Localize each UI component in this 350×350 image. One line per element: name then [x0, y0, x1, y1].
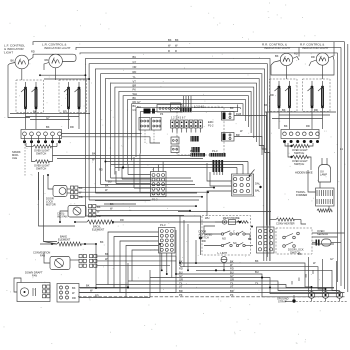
svg-text:RD: RD: [270, 93, 274, 97]
wire right lamp tie: [271, 60, 334, 75]
svg-text:OR: OR: [230, 277, 234, 281]
label convection fan: [33, 251, 50, 258]
svg-text:WH: WH: [133, 92, 137, 96]
svg-text:BK: BK: [248, 237, 252, 241]
label R.F. control and indicator light: [300, 43, 329, 51]
wire bottom bus 1 (BK): [179, 259, 312, 287]
wire cooling fan left lead: [60, 211, 68, 222]
transformer T1 box: [316, 188, 335, 206]
junction dots scattered: [47, 74, 326, 290]
wire terminal riser L1: [309, 257, 312, 292]
svg-text:BK: BK: [72, 286, 76, 290]
label door lock switch: [288, 248, 304, 255]
connector P23 dark: [144, 109, 156, 114]
svg-text:BAL: BAL: [255, 189, 260, 193]
wire mesh elbow right group: [85, 178, 201, 216]
relay board switch lever: [249, 170, 255, 177]
switch assembly S3 (R.R. infinite switch): [270, 79, 298, 112]
connector P4 pins open: [283, 132, 320, 136]
thermal limit switch: [221, 257, 227, 272]
wire below right switch boxes: [265, 108, 336, 119]
svg-text:BU: BU: [137, 105, 141, 109]
svg-text:PK: PK: [179, 293, 183, 297]
svg-text:RD: RD: [70, 125, 74, 129]
svg-text:BU: BU: [133, 104, 137, 108]
node meat probe left: [199, 216, 206, 255]
ERC left pin boxes: [171, 137, 179, 153]
wire lamp DS3 leads: [271, 52, 299, 66]
wire bottom bus 5 (GY): [150, 274, 341, 294]
svg-text:OR: OR: [179, 277, 183, 281]
svg-text:RD: RD: [63, 110, 67, 114]
svg-text:BU: BU: [108, 180, 112, 184]
wire mesh horizontal 3: [105, 161, 248, 163]
wire cross tie y79: [44, 78, 89, 80]
svg-text:ERC: ERC: [208, 120, 214, 124]
svg-text:WH: WH: [205, 216, 209, 220]
wire y211 long: [178, 211, 271, 213]
terminal L2: [336, 292, 343, 302]
svg-text:BK: BK: [133, 96, 137, 100]
meat probe jack: [222, 220, 248, 225]
svg-text:SWITCH: SWITCH: [36, 152, 46, 156]
wire right switch drops to connector: [279, 112, 323, 130]
svg-text:GY: GY: [230, 274, 234, 278]
wire mid vertical 5: [175, 256, 177, 292]
svg-text:STRAP: STRAP: [278, 300, 287, 304]
wire mesh horizontal 5: [115, 166, 237, 168]
door lock switch dashed box: [276, 228, 312, 254]
connector P3 body (left): [21, 130, 62, 139]
svg-text:PK: PK: [133, 88, 137, 92]
svg-text:NO: NO: [222, 237, 226, 241]
switch assembly S4 (R.F. infinite switch): [303, 79, 331, 112]
svg-text:BK: BK: [264, 103, 268, 107]
svg-text:ULE: ULE: [12, 156, 17, 160]
svg-text:BK: BK: [97, 205, 101, 209]
resistor oven light 1: [26, 145, 57, 148]
wire meat probe area links: [204, 226, 253, 246]
wire bottom bus 2 (W): [179, 263, 326, 289]
connector small B: [152, 118, 162, 131]
svg-text:BK: BK: [282, 108, 286, 112]
wire fan line 13 (GY): [133, 105, 238, 154]
svg-text:YL: YL: [230, 281, 234, 285]
svg-text:MEAT PROBE: MEAT PROBE: [223, 216, 240, 220]
svg-text:SWITCH: SWITCH: [294, 162, 304, 166]
wire relay K2 out: [234, 137, 262, 156]
label oven light 2: [34, 164, 50, 171]
wire relay board left leads: [207, 163, 232, 216]
svg-text:BR: BR: [230, 289, 234, 293]
wire mid vertical 4: [159, 243, 161, 293]
svg-text:CONV HEATER: CONV HEATER: [276, 222, 295, 226]
wire fan line 5 (YL): [105, 75, 263, 261]
wire door lock rows east: [78, 188, 214, 197]
connector block P1-2: [151, 172, 167, 202]
svg-text:LIGHT: LIGHT: [4, 51, 13, 55]
wire fan line 9 (WH): [123, 92, 248, 168]
wire mesh horizontal 4: [111, 164, 243, 166]
wire bake leads: [44, 242, 97, 246]
svg-text:BK: BK: [11, 59, 15, 63]
wire cross tie y75: [39, 74, 85, 76]
svg-text:BK: BK: [284, 124, 288, 128]
wire feeders P1-2 top: [154, 162, 164, 172]
wire top bus R: [80, 49, 338, 54]
svg-text:INDICATOR LIGHT: INDICATOR LIGHT: [264, 46, 291, 50]
indicator lamp DS2 (L.R.): [49, 54, 63, 68]
svg-text:1 2 3 4 5 6 7: 1 2 3 4 5 6 7: [171, 116, 186, 120]
label bake element: [58, 235, 71, 242]
wire fan line 7 (BR): [115, 83, 254, 174]
wire lamp DS3 up stub: [298, 47, 300, 56]
wire door lock switch outputs: [312, 233, 345, 244]
label oven light 1: [34, 149, 50, 156]
wire dashed drops from small comps: [145, 130, 154, 143]
svg-text:VT: VT: [179, 284, 183, 288]
connector P3 pins filled: [23, 140, 61, 143]
svg-text:GY: GY: [133, 60, 137, 64]
svg-text:HIDDEN BAKE: HIDDEN BAKE: [295, 171, 313, 175]
wire terminal riser L2: [337, 261, 340, 292]
svg-text:BK: BK: [298, 252, 302, 256]
svg-text:YL: YL: [133, 75, 137, 79]
wire lamp DS2 bottom drop: [55, 68, 57, 80]
label relay K1: [236, 112, 241, 116]
svg-text:YL: YL: [255, 281, 259, 285]
label relay K2: [236, 133, 240, 137]
wire bottom bus 3 (RD): [179, 267, 340, 291]
svg-text:FAN: FAN: [40, 254, 45, 258]
svg-text:BK: BK: [100, 240, 104, 244]
connector convection fan A: [79, 255, 86, 268]
resistor oven light 3: [290, 144, 309, 147]
wire lamp DS4 bottom drop: [322, 65, 324, 79]
svg-text:RD: RD: [311, 55, 315, 59]
wire fan line 12 (BU): [133, 104, 241, 157]
svg-text:INDICATOR LIGHT: INDICATOR LIGHT: [44, 46, 71, 50]
wire rail to down draft: [14, 278, 21, 292]
ERC top connector bar: [171, 96, 193, 112]
wire right edge drop 4: [347, 44, 349, 292]
wire lamp DS4 leads: [309, 55, 334, 66]
label hidden bake: [295, 171, 313, 175]
wire right edge drop 3: [337, 53, 339, 282]
svg-text:P4: P4: [160, 112, 164, 116]
switch assembly S2 (L.R. infinite switch): [59, 80, 87, 113]
svg-text:MOTOR: MOTOR: [46, 203, 56, 207]
wire loop over lamps: [33, 54, 76, 61]
wire transformer leads: [308, 170, 329, 210]
coil under transformer: [317, 209, 332, 212]
wire P3 pin drops: [25, 136, 60, 142]
wire right edge drop 1: [344, 42, 346, 289]
wire bus left risers: [176, 216, 196, 274]
svg-text:BR: BR: [179, 289, 183, 293]
label door lock motor: [46, 197, 56, 207]
wire broil leads: [75, 221, 241, 223]
svg-text:RD: RD: [230, 267, 234, 271]
down draft capacitor: [33, 288, 36, 296]
wire center vertical x266: [266, 112, 268, 226]
svg-text:NC: NC: [233, 241, 237, 245]
svg-text:BU: BU: [255, 270, 259, 274]
label spark module: [12, 150, 21, 160]
door lock motor box: [53, 186, 67, 197]
label oven light 4: [292, 159, 308, 166]
wire bottom bus 4 (BU): [176, 270, 345, 297]
wire right edge drop 2: [340, 47, 342, 286]
wire lamp DS1 left lead: [8, 59, 15, 66]
door lock switch sym 2: [283, 242, 296, 247]
svg-text:BU: BU: [133, 55, 137, 59]
svg-text:ING FAN: ING FAN: [57, 215, 68, 219]
svg-text:BK: BK: [255, 259, 259, 263]
resistor broil element: [87, 220, 113, 224]
svg-text:BK: BK: [275, 54, 279, 58]
wire fan line 2 (GY): [89, 60, 267, 257]
svg-text:RD: RD: [45, 58, 49, 62]
wire bottom bus 9 (BR): [79, 289, 345, 293]
ERC bottom bar 1: [191, 153, 206, 157]
wire fan line 8 (PK): [119, 88, 251, 171]
meat probe dashed box: [202, 216, 251, 256]
wire fan line 3 (OR): [95, 65, 269, 261]
terminal L1: [308, 292, 315, 302]
wire mid vertical 2: [127, 263, 129, 289]
wire fan line 1 (BU): [85, 55, 270, 261]
label meat probe: [223, 216, 240, 220]
svg-text:RD: RD: [294, 52, 298, 56]
svg-text:1 2 3 4 5: 1 2 3 4 5: [194, 105, 205, 109]
wire left dashed drops: [25, 144, 39, 200]
terminal N: [322, 292, 329, 302]
wire oven sensor leads: [312, 242, 341, 244]
svg-text:BK: BK: [46, 125, 50, 129]
convection fan motor: [50, 257, 70, 270]
svg-text:BK: BK: [86, 284, 90, 288]
wire top bus BK: [33, 38, 345, 45]
label L.R. control and indicator light: [42, 43, 71, 51]
svg-text:GY: GY: [330, 257, 334, 261]
connector block P1-3: [159, 223, 176, 253]
label oven sensor: [317, 229, 328, 236]
wire top bus W: [76, 44, 341, 50]
wire bottom bus 8 (VT): [80, 284, 334, 288]
connector P4 body (right): [281, 130, 319, 139]
wire center vertical x269: [269, 96, 271, 226]
svg-text:P1-2: P1-2: [208, 124, 214, 128]
wire bottom bus 6 (OR): [128, 277, 338, 290]
label L limit: [218, 251, 228, 255]
wire feeders P1-2 left: [116, 175, 151, 193]
wire feeders P1-3 left: [108, 232, 159, 297]
label door heater: [276, 222, 295, 226]
svg-text:RD: RD: [97, 214, 101, 218]
wire mesh horizontal 1: [53, 155, 200, 157]
wire meat probe leads: [215, 221, 222, 223]
svg-text:DAL: DAL: [255, 182, 261, 186]
svg-text:RD: RD: [31, 50, 35, 54]
ERC dashed outline: [177, 107, 224, 155]
wire ERC outputs to board: [214, 172, 223, 175]
svg-text:RD: RD: [72, 296, 76, 300]
wire P3 to center rows: [62, 134, 160, 144]
door lock switch sym 1: [283, 232, 300, 239]
ERC bottom bar 2: [210, 153, 226, 157]
svg-text:BK: BK: [79, 186, 83, 190]
wire lamp DS1 bottom drop: [21, 69, 23, 80]
resistor oven light 2: [35, 160, 49, 163]
svg-text:ELEMENT: ELEMENT: [92, 228, 105, 232]
svg-text:R: R: [168, 49, 170, 53]
wire terminal riser N: [323, 259, 326, 292]
ERC mini bar A: [191, 136, 200, 142]
svg-text:P1-3: P1-3: [160, 223, 166, 227]
label ground strap: [277, 297, 289, 304]
svg-text:RD: RD: [95, 294, 99, 298]
wire bottom bus 10 (PK): [78, 293, 319, 297]
wire left rail 1: [39, 172, 76, 226]
wire convection fan east: [97, 256, 176, 266]
svg-text:BU: BU: [179, 270, 183, 274]
svg-text:BK: BK: [105, 252, 109, 256]
svg-text:GY: GY: [46, 116, 50, 120]
wire oven lamp leads: [322, 158, 327, 165]
door switch 2 sym: [221, 241, 245, 247]
label transformer: [296, 190, 307, 197]
svg-text:INDICATOR LIGHT: INDICATOR LIGHT: [302, 46, 329, 50]
label cooling fan: [57, 212, 68, 219]
relay K2 (BAKE): [222, 133, 235, 142]
svg-text:GY: GY: [137, 100, 141, 104]
svg-text:RD: RD: [202, 239, 206, 243]
wire fan line 11 (RD): [132, 100, 243, 161]
connector strip C: [157, 105, 182, 113]
svg-text:BK: BK: [105, 184, 109, 188]
connector door lock switch: [257, 227, 275, 253]
wire mid vertical 1: [95, 244, 97, 289]
svg-text:YL: YL: [179, 281, 183, 285]
wire lamp DS3 bottom drop: [286, 66, 288, 79]
relay board pins grid: [234, 177, 250, 192]
label R.R. control and indicator light: [262, 43, 291, 51]
wire bus junction dots: [195, 262, 263, 279]
svg-text:L. LIMIT: L. LIMIT: [218, 251, 228, 255]
svg-text:SWITCH: SWITCH: [294, 151, 304, 155]
svg-text:ELEMENT: ELEMENT: [58, 238, 71, 242]
svg-text:P1-2: P1-2: [152, 198, 158, 202]
switch assembly S1 (L.F. infinite switch): [16, 80, 44, 113]
svg-text:GY: GY: [179, 274, 183, 278]
svg-text:OR: OR: [133, 65, 137, 69]
svg-text:RD: RD: [99, 168, 103, 172]
svg-text:RD: RD: [133, 100, 137, 104]
wire lamp DS1 to loop: [29, 50, 35, 61]
indicator lamp DS4 (R.F.): [316, 53, 328, 65]
svg-text:P1-1: P1-1: [190, 149, 196, 153]
svg-text:RD: RD: [79, 195, 83, 199]
door actuated switch sym: [221, 230, 245, 241]
label relay board: [255, 182, 262, 193]
wire fan drop extensions: [116, 154, 140, 193]
svg-text:RD: RD: [133, 70, 137, 74]
wire door lock motor leads: [48, 175, 71, 193]
connector convection fan B: [90, 255, 97, 268]
wire feeders P1-3 bottom: [162, 253, 172, 278]
svg-text:BK: BK: [92, 152, 96, 156]
svg-text:PK: PK: [230, 293, 234, 297]
svg-text:RD: RD: [120, 218, 124, 222]
label down draft fan: [25, 271, 43, 278]
svg-text:BR: BR: [133, 83, 137, 87]
svg-text:C: C: [233, 230, 235, 234]
wire lamp DS4 up stub: [333, 42, 335, 56]
svg-text:LAMP: LAMP: [320, 173, 327, 177]
connector down draft A: [43, 285, 50, 298]
label door actuated switch: [199, 230, 213, 240]
connector door lock motor: [71, 186, 83, 199]
wire mid vertical 3: [149, 270, 151, 298]
indicator lamp DS1 (L.F.): [15, 55, 29, 69]
wire fan line 10 (BK): [127, 96, 245, 164]
svg-text:P1-3: P1-3: [212, 149, 218, 153]
svg-text:BU: BU: [230, 270, 234, 274]
svg-text:GY: GY: [133, 108, 137, 112]
label L.F. control and indicator light: [4, 44, 25, 55]
down draft fan box: [17, 283, 50, 302]
svg-text:RD: RD: [306, 124, 310, 128]
oven sensor body: [316, 239, 332, 246]
svg-text:BK: BK: [230, 259, 234, 263]
wire fan line 4 (RD): [101, 70, 267, 261]
svg-text:VT: VT: [133, 79, 137, 83]
label broil element: [92, 225, 105, 232]
svg-text:BK: BK: [110, 202, 114, 206]
extra wire labels: [46, 38, 343, 298]
svg-text:RD: RD: [179, 267, 183, 271]
svg-text:R: R: [175, 49, 177, 53]
cooling fan motor: [68, 206, 86, 218]
oven lamp bulb: [319, 165, 331, 183]
svg-text:SWITCH: SWITCH: [36, 167, 46, 171]
wire cooling fan east: [96, 206, 196, 215]
wire convection fan left lead: [44, 252, 79, 263]
wire relay board top feeds: [237, 162, 248, 175]
wire relay K1 out: [234, 116, 267, 151]
wire fan line 6 (VT): [111, 79, 257, 178]
svg-text:FAN: FAN: [32, 274, 37, 278]
wire mesh horizontal 2: [57, 158, 203, 160]
connector P3 pins open: [23, 132, 62, 136]
svg-text:VT: VT: [230, 284, 234, 288]
resistor door heater: [270, 218, 306, 224]
resistor oven light 4: [290, 155, 308, 158]
svg-text:FORMER: FORMER: [296, 193, 307, 197]
connector cooling fan: [89, 205, 101, 219]
wire bottom bus 7 (YL): [96, 281, 334, 288]
wire down draft east: [79, 288, 176, 298]
svg-text:BK: BK: [230, 106, 234, 110]
connector P4 pins filled: [283, 140, 319, 143]
wire bus step ties: [292, 270, 313, 284]
wire left resistor leads: [26, 143, 57, 162]
label ERC: [208, 120, 214, 128]
connector small A: [139, 118, 150, 131]
svg-text:BK: BK: [175, 38, 179, 42]
ground strap: [285, 295, 348, 303]
